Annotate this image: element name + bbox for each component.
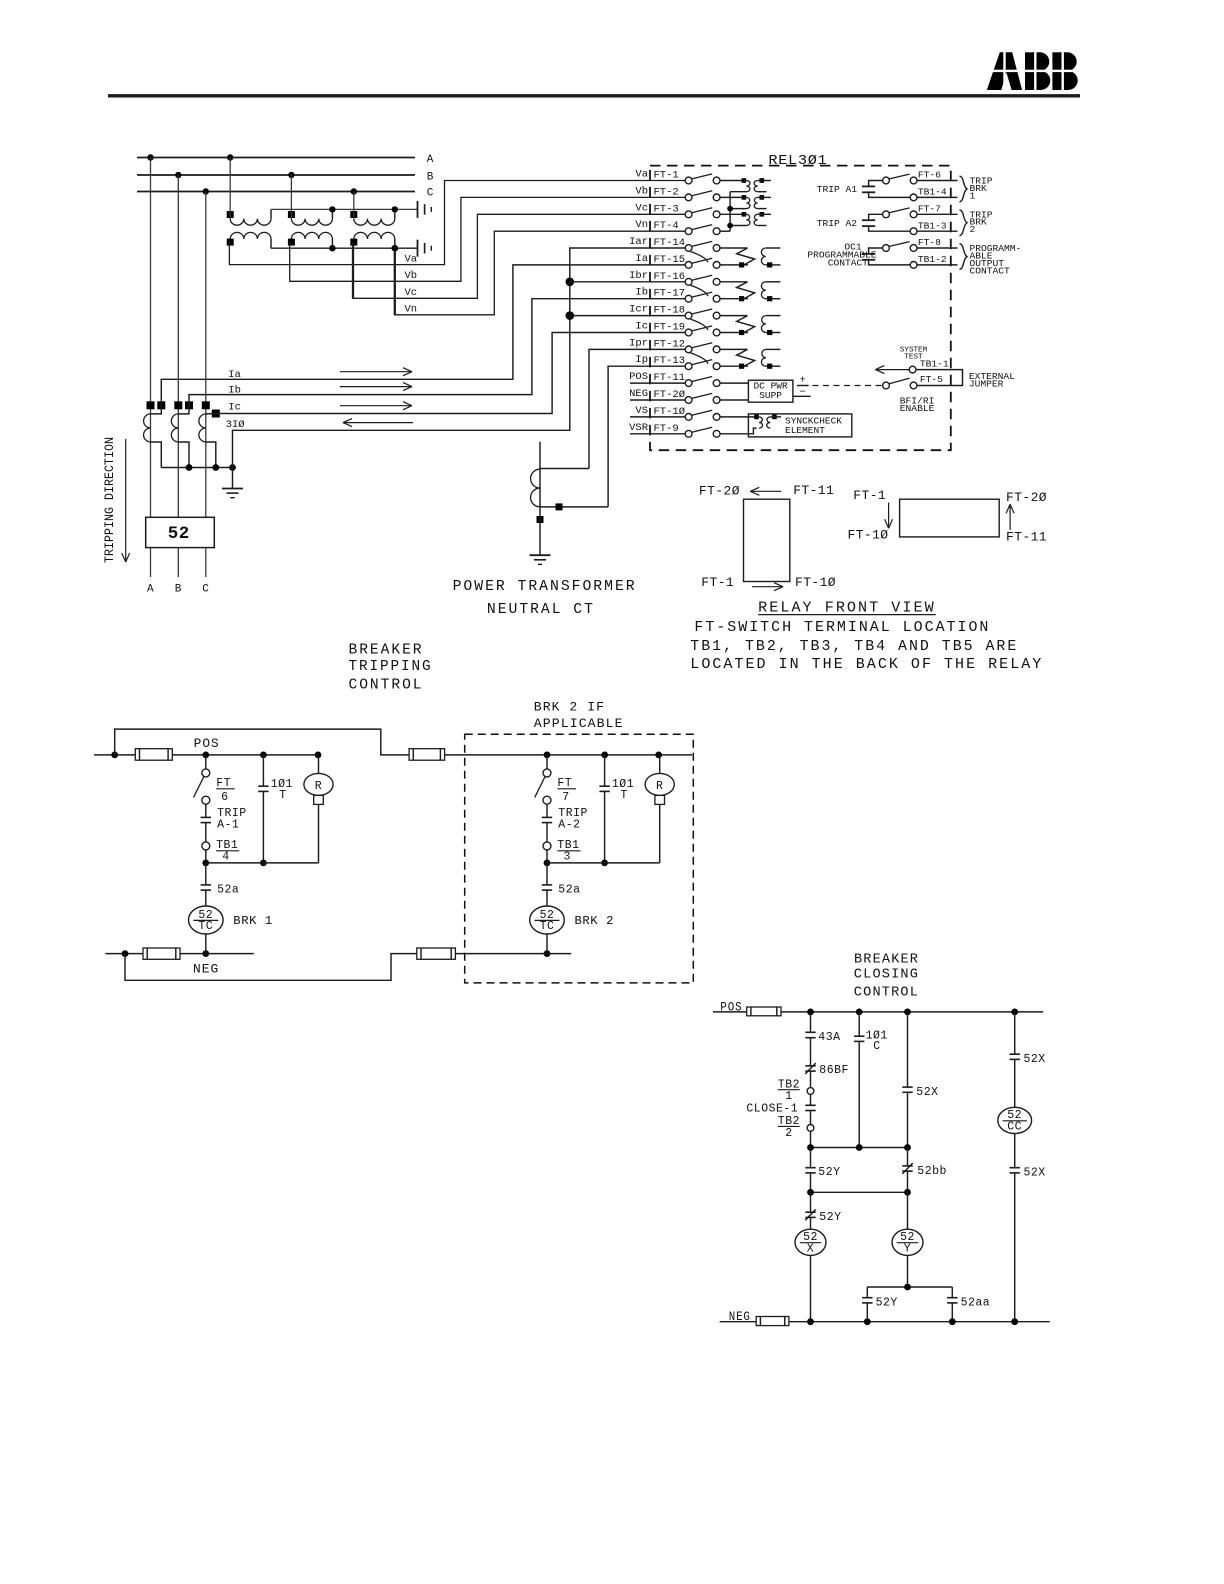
transformer VT1 primary square xyxy=(742,178,747,183)
bus B label xyxy=(427,171,434,183)
lamp R resistor BRK 2 xyxy=(655,795,665,804)
svg-text:LOCATED IN THE BACK OF THE REL: LOCATED IN THE BACK OF THE RELAY xyxy=(690,656,1043,673)
svg-text:T: T xyxy=(620,789,627,802)
svg-text:T: T xyxy=(279,789,286,802)
label 52bb xyxy=(917,1165,947,1178)
svg-text:FT-13: FT-13 xyxy=(654,355,686,367)
svg-text:TC: TC xyxy=(540,920,555,933)
label TB2/2 xyxy=(778,1115,800,1140)
svg-text:52a: 52a xyxy=(558,884,580,897)
label POS xyxy=(194,737,220,751)
contact 101/T BRK 2 xyxy=(599,786,609,791)
wire CLOSE-1 to TB2/2 xyxy=(810,1111,812,1125)
wire PT2 secondary to neutral xyxy=(331,239,333,248)
svg-text:X: X xyxy=(807,1243,814,1256)
svg-text:BRK 2: BRK 2 xyxy=(575,915,615,928)
label TB2/1 xyxy=(778,1079,800,1104)
label OC1 programmable contact (FT-8/TB1-2) FT xyxy=(0,0,1,1)
transformer PT1 primary polarity square xyxy=(227,211,234,218)
svg-text:Ip: Ip xyxy=(635,354,648,366)
coil 52/CC xyxy=(998,1107,1032,1133)
wire neutral CT line xyxy=(539,442,541,507)
node bus B tap2 xyxy=(288,172,294,178)
label 101/C xyxy=(866,1030,888,1053)
svg-text:FT-2Ø: FT-2Ø xyxy=(1006,490,1047,505)
label 101/T BRK 1 xyxy=(271,778,293,802)
transformer VT3 secondary winding xyxy=(754,214,758,225)
wire node1 xyxy=(811,1147,908,1149)
brace OC1 programmable contact (FT-8/TB1-2) xyxy=(960,244,968,270)
transformer auxCT FT-15 primary zigzag xyxy=(720,248,755,268)
label brk2 if applicable xyxy=(534,700,624,731)
svg-text:A-2: A-2 xyxy=(558,819,580,832)
svg-text:3: 3 xyxy=(564,851,571,864)
svg-text:FT-17: FT-17 xyxy=(654,288,686,300)
label FV FT-1 right xyxy=(853,488,886,503)
label TB1-4 xyxy=(918,187,947,198)
label FT-8 xyxy=(918,237,941,248)
contact 86BF xyxy=(805,1063,815,1074)
node bus A tap1 xyxy=(147,154,153,160)
svg-text:FT-11: FT-11 xyxy=(1006,529,1047,544)
svg-text:Ib: Ib xyxy=(635,287,648,299)
svg-text:CLOSE-1: CLOSE-1 xyxy=(746,1103,798,1116)
node bus C tap1 xyxy=(203,188,209,194)
label NEG closing xyxy=(729,1310,751,1324)
node2 a xyxy=(807,1189,814,1196)
wire VT1 secondary bottom stub xyxy=(758,191,767,193)
transformer PT3 secondary winding xyxy=(354,232,395,239)
wire 101/T branch BRK 1 xyxy=(262,755,264,863)
wire 52aa to NEG xyxy=(951,1303,953,1322)
svg-text:FT-12: FT-12 xyxy=(654,338,686,350)
svg-text:Ic: Ic xyxy=(635,321,648,333)
wire Vc thick segment xyxy=(352,244,354,298)
node closing POS a xyxy=(807,1009,814,1016)
switch FT/6 BRK 1 xyxy=(194,769,210,804)
svg-text:FT-1: FT-1 xyxy=(701,575,734,590)
wire PT2 primary to neutral xyxy=(331,209,333,218)
svg-text:A: A xyxy=(147,584,154,596)
wire phase C drop xyxy=(205,192,207,518)
box BRK2 dashed xyxy=(465,734,694,983)
node 3I0 label xyxy=(226,419,245,431)
svg-text:FT-4: FT-4 xyxy=(654,220,679,232)
wire VT1 primary return xyxy=(730,191,746,193)
node POS 101 xyxy=(260,752,267,759)
svg-text:FT-18: FT-18 xyxy=(654,305,686,317)
wire VS stub xyxy=(630,416,685,418)
wire R branch top BRK 2 xyxy=(659,755,661,774)
contact 52Y upper xyxy=(805,1168,815,1173)
wire 43A branch top xyxy=(810,1012,812,1032)
block synckcheck box xyxy=(748,414,851,437)
switch arc FT current pair FT-14 xyxy=(691,252,709,263)
transformer auxCT FT-19 secondary coil xyxy=(761,316,780,336)
node closing POS c xyxy=(904,1009,911,1016)
switch TB2/2 xyxy=(807,1125,814,1132)
contact TRIP A-2 BRK 2 xyxy=(542,817,552,822)
node PT secondary neutral PT2 xyxy=(329,245,335,251)
wire phase A drop xyxy=(150,158,152,518)
header rule xyxy=(108,94,1080,97)
switch FT-1 terminal xyxy=(635,169,720,184)
transformer PT1 primary winding xyxy=(230,219,271,226)
svg-text:C: C xyxy=(427,188,434,200)
bus C xyxy=(137,191,415,193)
switch arc FT current pair FT-12 xyxy=(691,353,709,364)
wire BRK 1 52a to coil xyxy=(205,890,207,906)
label TB1/3 xyxy=(557,839,580,863)
transformer VT1 primary winding xyxy=(746,181,750,192)
svg-text:52: 52 xyxy=(168,524,190,544)
svg-text:TRIP A2: TRIP A2 xyxy=(817,218,858,229)
svg-text:Ib: Ib xyxy=(228,384,241,396)
label power transformer line1 xyxy=(453,578,637,595)
transformer VT2 secondary square xyxy=(760,195,765,200)
wire POS rail BRK2 xyxy=(445,754,692,756)
svg-text:FT-1Ø: FT-1Ø xyxy=(654,406,686,418)
svg-text:FT-3: FT-3 xyxy=(654,203,679,215)
svg-text:43A: 43A xyxy=(818,1031,840,1044)
label FT-6 xyxy=(918,170,941,181)
front view left box xyxy=(744,499,790,581)
tripping direction label xyxy=(102,437,117,563)
svg-text:2: 2 xyxy=(785,1127,792,1140)
svg-text:CC: CC xyxy=(1007,1121,1022,1134)
svg-text:BREAKER: BREAKER xyxy=(349,641,424,658)
svg-text:Vn: Vn xyxy=(635,219,648,231)
wire NEG rail xyxy=(105,953,253,955)
arrow FV bottom right xyxy=(752,583,783,591)
svg-text:TB1-3: TB1-3 xyxy=(918,220,947,231)
node CT common B xyxy=(186,464,193,471)
node2 c xyxy=(904,1189,911,1196)
bus C label xyxy=(427,188,434,200)
coil 52/TC BRK 1 xyxy=(189,906,224,934)
svg-text:VSR: VSR xyxy=(629,422,649,434)
wire BRK 2 sw to contact xyxy=(546,804,548,817)
label TB1/4 xyxy=(216,839,239,863)
label 86BF xyxy=(819,1064,849,1077)
front view right box xyxy=(900,499,1000,537)
wire BRK 1 sw to contact xyxy=(205,804,207,817)
svg-text:Vc: Vc xyxy=(405,287,418,299)
node bus A tap2 xyxy=(227,154,233,160)
bus B xyxy=(137,174,415,176)
transformer CTB secondary polarity square xyxy=(185,401,193,409)
wire PT1 primary drop xyxy=(229,158,231,219)
label 52X lower right xyxy=(1024,1167,1046,1180)
svg-text:1: 1 xyxy=(970,190,976,201)
wire Icr xyxy=(570,315,685,317)
svg-text:A-1: A-1 xyxy=(217,819,239,832)
wire node1 to 52Y xyxy=(810,1148,812,1168)
node1 b xyxy=(856,1144,863,1151)
label OC1 programmable contact (FT-8/TB1-2) xyxy=(0,0,1,1)
wire VT2 secondary top stub xyxy=(758,196,771,198)
wire TB2/1 to CLOSE-1 xyxy=(810,1094,812,1105)
node1 c xyxy=(904,1144,911,1151)
svg-text:Ia: Ia xyxy=(635,253,648,265)
svg-text:VS: VS xyxy=(635,405,648,417)
wire node3 left down xyxy=(866,1287,868,1298)
wire BRK 2 coil to NEG xyxy=(546,934,548,954)
label FV FT-11 right xyxy=(1006,529,1047,544)
transformer auxCT FT-15 secondary coil xyxy=(761,248,780,268)
label FV FT-10 left xyxy=(795,575,836,590)
fuse POS BRK2 xyxy=(409,749,445,761)
node POS left xyxy=(111,752,118,759)
wire BRK 1 coil to NEG xyxy=(205,934,207,954)
wire VT2 secondary bottom stub xyxy=(758,208,767,210)
fuse NEG closing xyxy=(756,1317,789,1326)
svg-text:CONTACT: CONTACT xyxy=(970,265,1011,276)
wire node1 to 52bb xyxy=(907,1148,909,1166)
wire Ib xyxy=(178,299,685,414)
transformer VT2 secondary winding xyxy=(754,197,758,208)
transformer PT3 primary polarity square xyxy=(350,211,357,218)
switch TB2/1 xyxy=(807,1088,814,1095)
contact CLOSE-1 xyxy=(805,1105,815,1110)
contact 52X upper right xyxy=(1010,1054,1020,1059)
lamp R BRK 2 xyxy=(645,773,674,795)
switch FT-16 terminal xyxy=(629,270,720,285)
node 3I0 to Icr xyxy=(566,311,575,320)
contact TRIP A2 (FT-7/TB1-3) xyxy=(862,208,958,235)
wire CTC return xyxy=(206,442,216,468)
switch TB1/3 BRK 2 xyxy=(543,842,551,850)
label FV FT-10 right xyxy=(848,528,889,543)
wire BRK 2 contact to TB1 xyxy=(546,823,548,842)
svg-text:FT-16: FT-16 xyxy=(654,271,686,283)
label FT/6 xyxy=(216,777,235,804)
wire VT3 secondary bottom stub xyxy=(758,225,767,227)
svg-text:POWER TRANSFORMER: POWER TRANSFORMER xyxy=(453,578,637,595)
wire Va to relay xyxy=(229,181,685,265)
wire PT3 primary drop xyxy=(353,192,355,219)
label NEG xyxy=(193,963,219,977)
svg-text:FT: FT xyxy=(557,777,572,790)
svg-text:CONTROL: CONTROL xyxy=(349,677,424,694)
wire Vb to relay xyxy=(290,197,686,281)
svg-text:FT: FT xyxy=(216,777,231,790)
label FV FT-1 left xyxy=(701,575,734,590)
svg-text:RELAY FRONT VIEW: RELAY FRONT VIEW xyxy=(758,599,936,616)
svg-text:86BF: 86BF xyxy=(819,1064,849,1077)
transformer auxCT FT-13 secondary coil xyxy=(761,349,780,368)
svg-text:7: 7 xyxy=(562,791,569,804)
label 43A xyxy=(818,1031,840,1044)
svg-text:1: 1 xyxy=(785,1090,792,1103)
transformer auxCT FT-13 primary zigzag xyxy=(720,349,755,368)
transformer synckcheck primary winding xyxy=(759,417,763,428)
svg-text:JUMPER: JUMPER xyxy=(969,379,1004,390)
node VT3 return xyxy=(727,223,733,229)
contact TRIP A1 (FT-6/TB1-4) xyxy=(862,174,958,201)
wire 86BF to TB2/1 xyxy=(810,1071,812,1088)
label OC1 xyxy=(807,242,876,269)
wire VT3 primary return xyxy=(730,225,746,227)
node VT2 return xyxy=(727,206,733,212)
contact 52X lower right xyxy=(1010,1168,1020,1173)
svg-text:SUPP: SUPP xyxy=(759,390,782,401)
wire PT3 primary to neutral xyxy=(394,209,396,218)
label supply plus xyxy=(800,375,806,387)
node Vn label xyxy=(405,304,418,316)
node NEG 52Y xyxy=(864,1318,871,1325)
bus A label xyxy=(427,154,434,166)
svg-text:FT-1: FT-1 xyxy=(654,170,679,182)
svg-text:52Y: 52Y xyxy=(876,1297,898,1310)
svg-text:POS: POS xyxy=(629,371,648,383)
label system test xyxy=(900,346,928,361)
node Ic label xyxy=(228,401,241,413)
svg-text:ELEMENT: ELEMENT xyxy=(785,425,825,436)
switch FT-2&#216; terminal xyxy=(629,388,720,403)
node bus C tap2 xyxy=(351,188,357,194)
switch TB1/4 BRK 1 xyxy=(202,842,210,850)
svg-text:FT-2: FT-2 xyxy=(654,186,679,198)
transformer PT2 primary winding xyxy=(291,219,332,226)
svg-text:C: C xyxy=(202,584,209,596)
wire CT ground xyxy=(232,468,234,489)
wire PT secondary neutral xyxy=(271,247,418,249)
label 52Y bottom xyxy=(876,1297,898,1310)
fuse NEG xyxy=(143,948,180,959)
svg-text:FT-15: FT-15 xyxy=(654,254,686,266)
node Vc label xyxy=(405,287,418,299)
label TB1-1 xyxy=(920,358,949,369)
node 101/T tie BRK 1 xyxy=(260,860,267,867)
transformer VT3 primary winding xyxy=(746,214,750,225)
label synckcheck xyxy=(785,416,842,436)
svg-text:APPLICABLE: APPLICABLE xyxy=(534,717,624,731)
svg-text:TB1-4: TB1-4 xyxy=(918,187,947,198)
label supply minus xyxy=(800,386,806,398)
relay REL301 outline xyxy=(650,166,951,451)
wire FT-20 to supply xyxy=(720,399,748,401)
transformer VT3 primary square xyxy=(742,212,747,217)
label 52Y upper xyxy=(818,1166,840,1179)
svg-text:TB1-2: TB1-2 xyxy=(918,254,947,265)
svg-text:CONTROL: CONTROL xyxy=(854,986,919,1001)
contact 52aa xyxy=(947,1298,957,1303)
svg-text:R: R xyxy=(315,780,322,793)
wire node3 right down xyxy=(951,1287,953,1298)
wire 3I0 xyxy=(233,248,686,468)
transformer auxCT FT-17 secondary coil xyxy=(761,282,780,302)
label tb note2 xyxy=(690,656,1043,673)
switch FT-18 terminal xyxy=(629,304,720,319)
transformer auxCT FT-17 primary zigzag xyxy=(720,282,755,302)
svg-text:TB1-1: TB1-1 xyxy=(920,358,949,369)
coil 52/X xyxy=(795,1229,826,1255)
switch arc FT current pair FT-16 xyxy=(691,285,709,296)
wire 52/CC to 52X lower xyxy=(1014,1134,1016,1168)
svg-text:52bb: 52bb xyxy=(917,1165,947,1178)
wire VT2 primary return xyxy=(730,208,746,210)
svg-text:FT-14: FT-14 xyxy=(654,237,686,249)
breaker 52 box xyxy=(146,517,215,547)
label TRIP A-1 xyxy=(217,807,247,832)
relay REL301 title xyxy=(768,154,827,169)
wire R branch bottom BRK 2 xyxy=(659,804,661,863)
wire VT3 in xyxy=(744,213,747,215)
switch FT-17 terminal xyxy=(635,287,720,302)
arrow FV top left xyxy=(750,487,781,495)
node POS R xyxy=(315,752,322,759)
svg-text:Ia: Ia xyxy=(228,369,241,381)
contact 52Y lower xyxy=(805,1209,815,1220)
wire 52/Y to node3 xyxy=(907,1255,909,1287)
switch TB1-1 terminal xyxy=(909,366,916,373)
wire FT-9 to synckcheck xyxy=(720,428,757,434)
svg-text:6: 6 xyxy=(221,791,228,804)
transformer CTB winding xyxy=(171,414,178,442)
wire PT1 secondary to neutral xyxy=(270,239,272,248)
transformer neutral CT polarity square (line) xyxy=(537,516,544,523)
node BRK 2 NEG xyxy=(544,950,551,957)
arrow Ia direction xyxy=(340,368,412,376)
wire BRK 1 TB1 to node xyxy=(205,850,207,863)
svg-text:4: 4 xyxy=(222,851,229,864)
wire BRK 2 TB1 to node xyxy=(546,850,548,863)
label FV FT-20 xyxy=(699,484,740,499)
label BRK 1 xyxy=(233,915,272,928)
label TRIP A2 (FT-7/TB1-3) xyxy=(817,218,858,229)
node PT primary neutral PT2 xyxy=(329,206,335,212)
node bus B tap1 xyxy=(175,172,181,178)
svg-text:Vb: Vb xyxy=(405,270,418,282)
transformer CTB primary polarity square xyxy=(174,401,182,409)
label FV FT-20 right xyxy=(1006,490,1047,505)
arrow tripping direction xyxy=(122,439,130,562)
svg-text:C: C xyxy=(873,1040,880,1053)
label TB1-3 xyxy=(918,220,947,231)
transformer CTC secondary polarity square xyxy=(212,410,220,418)
contact 101/C xyxy=(854,1036,864,1041)
svg-text:Vn: Vn xyxy=(405,304,418,316)
label 101/T BRK 2 xyxy=(612,778,634,802)
wire node2 to 52/Y xyxy=(907,1192,909,1229)
label power transformer line2 xyxy=(487,601,595,618)
wire node3 xyxy=(867,1286,952,1288)
label ft-switch location xyxy=(694,619,990,636)
switch FT/7 BRK 2 xyxy=(535,769,551,804)
wire synckcheck secondary stub xyxy=(770,416,781,418)
svg-text:TRIPPING DIRECTION: TRIPPING DIRECTION xyxy=(102,437,117,563)
switch FT-14 terminal xyxy=(629,236,720,251)
wire neutral CT ground lead xyxy=(539,507,541,555)
node 101/T tie BRK 2 xyxy=(601,860,608,867)
transformer VT1 secondary square xyxy=(760,178,765,183)
wire PT2 primary drop xyxy=(290,175,292,219)
transformer PT1 secondary polarity square xyxy=(227,239,234,246)
label POS closing xyxy=(720,1000,742,1014)
wire VSR stub xyxy=(630,433,685,435)
transformer CTA winding xyxy=(144,414,151,442)
transformer PT2 secondary winding xyxy=(291,232,332,239)
svg-text:Ibr: Ibr xyxy=(629,270,648,282)
transformer VT1 secondary winding xyxy=(754,181,758,192)
svg-text:TC: TC xyxy=(198,920,213,933)
node BRK 1 tie xyxy=(202,860,209,867)
svg-text:B: B xyxy=(175,584,182,596)
wire PT primary neutral xyxy=(271,208,418,210)
transformer neutral CT winding xyxy=(531,469,540,507)
arrow Ib direction xyxy=(340,383,412,391)
